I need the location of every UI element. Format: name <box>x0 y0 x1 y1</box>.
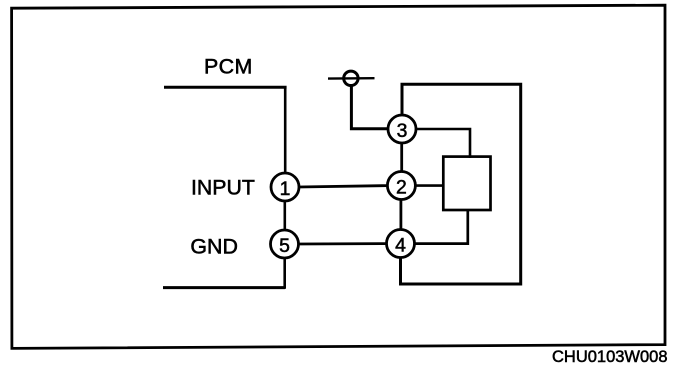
pin 1 <box>271 173 299 201</box>
wire pin 2 to pin 4 <box>399 199 402 231</box>
svg-text:2: 2 <box>396 177 407 199</box>
svg-text:1: 1 <box>280 178 291 200</box>
svg-text:INPUT: INPUT <box>191 176 255 200</box>
wire pin 2 to component box <box>415 184 444 187</box>
wire pin 3 to top of component box <box>416 129 471 158</box>
wire pin 3 to pin 2 <box>400 142 403 173</box>
svg-text:5: 5 <box>279 235 290 257</box>
wire test connector down to pin 3 <box>351 85 389 129</box>
pin 3 <box>388 115 416 143</box>
pin 2 <box>387 172 415 200</box>
pin 4 <box>387 230 415 258</box>
wire pin 5 to pin 4 <box>298 242 387 245</box>
test connector terminal (circle with line) <box>328 71 375 85</box>
figure code CHU0103W008 <box>552 347 668 366</box>
wire bottom of component box to pin 4 <box>414 210 468 244</box>
component box (sensor) <box>443 157 490 210</box>
wire loop pin 3 top around right side to pin 4 bottom <box>401 84 521 284</box>
pin 5 <box>271 230 299 258</box>
svg-text:PCM: PCM <box>204 55 253 79</box>
label PCM <box>204 55 253 79</box>
wire pin 1 to pin 2 <box>299 186 389 187</box>
label GND <box>190 235 238 259</box>
svg-text:4: 4 <box>395 235 406 257</box>
label INPUT <box>191 176 255 200</box>
wire PCM connector bottom bracket <box>163 286 285 289</box>
wire pin 1 to pin 5 <box>283 200 286 231</box>
wire PCM bracket down to pin 1 <box>284 87 287 173</box>
svg-text:GND: GND <box>190 235 238 259</box>
svg-text:CHU0103W008: CHU0103W008 <box>552 347 668 366</box>
svg-text:3: 3 <box>397 120 408 142</box>
wire PCM connector top bracket <box>164 86 287 89</box>
wire pin 5 down to bottom bracket <box>283 258 286 289</box>
